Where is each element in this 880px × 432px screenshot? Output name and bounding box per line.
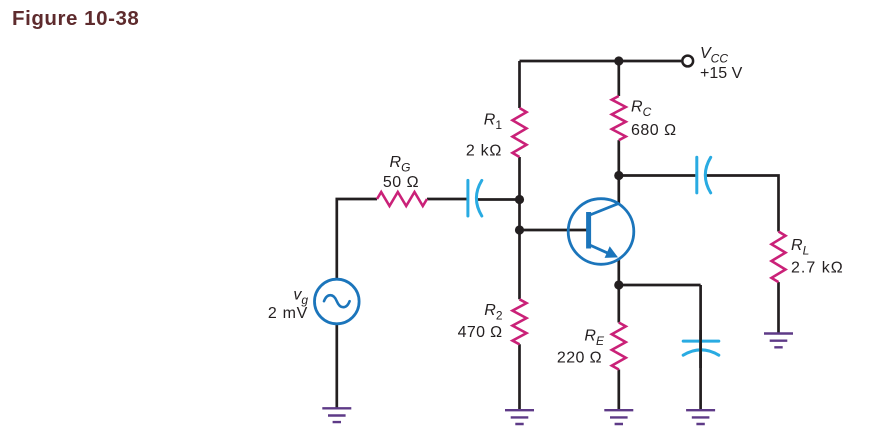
wire input source to RG [337,199,377,279]
wire C1 to bias node [478,198,520,201]
capacitor C1 input coupling [466,180,469,216]
wire bias column mid (R1 to R2) [518,157,521,299]
svg-text:RE: RE [584,328,605,349]
transistor Q1 circle [568,199,634,265]
wire source to ground [335,324,338,408]
svg-text:RC: RC [631,99,652,120]
wire bias column upper (rail to R1) [518,61,521,108]
wire RG to C1 [427,198,467,201]
resistor R2 [513,299,527,344]
source vg circle [315,279,360,324]
wire bias column lower (R2 to ground) [518,344,521,410]
resistor R1 [513,108,527,157]
wire top supply rail [520,60,682,63]
svg-text:R2: R2 [484,302,503,323]
svg-text:2.7 kΩ: 2.7 kΩ [791,260,844,277]
wire emitter node to bypass branch [619,284,701,287]
ground RL [764,334,793,348]
svg-text:R1: R1 [484,112,503,133]
svg-text:+15 V: +15 V [700,65,743,82]
wire collector node to C2 [619,174,696,177]
svg-text:RL: RL [791,237,809,258]
wire RL to ground [777,282,780,333]
wire base (node to transistor base) [520,229,589,232]
node base junction [515,225,524,234]
ground source [322,408,351,422]
VCC terminal [682,56,693,67]
wire collector (RC to transistor) [617,140,620,203]
capacitor C2 output coupling [695,157,698,193]
svg-text:VCC: VCC [700,45,728,66]
ground bypass [686,410,715,424]
transistor Q1 collector lead [589,203,620,215]
ground RE [604,410,633,424]
wire emitter column (node to RE) [617,285,620,323]
resistor RL [772,232,786,283]
ground R2 [505,410,534,424]
transistor Q1 emitter lead with arrow [589,245,608,254]
wire bypass column through C3 to ground [699,285,702,410]
node collector junction [614,171,623,180]
svg-text:2 kΩ: 2 kΩ [466,143,502,160]
svg-text:vg: vg [293,287,308,308]
resistor RE [612,323,626,370]
source vg sine [324,295,350,307]
resistor RC [612,96,626,140]
wire bypass column crossing C3 [699,330,702,368]
svg-text:50 Ω: 50 Ω [383,174,419,191]
svg-text:2 mV: 2 mV [268,305,308,322]
wire emitter (transistor to node) [617,260,620,286]
svg-text:Figure 10-38: Figure 10-38 [12,7,139,30]
capacitor C3 emitter bypass [683,340,719,343]
wire collector column upper (rail to RC) [617,61,620,96]
node rail junction [614,56,623,65]
wire C2 to RL corner [707,176,779,232]
svg-text:220 Ω: 220 Ω [557,350,602,367]
svg-text:680 Ω: 680 Ω [631,122,677,139]
node emitter junction [614,280,623,289]
node C1 to bias column [515,195,524,204]
resistor RG [377,192,427,206]
wire RE to ground [617,370,620,411]
svg-text:470 Ω: 470 Ω [458,324,503,341]
transistor Q1 base bar [586,212,591,249]
svg-text:RG: RG [390,154,411,175]
